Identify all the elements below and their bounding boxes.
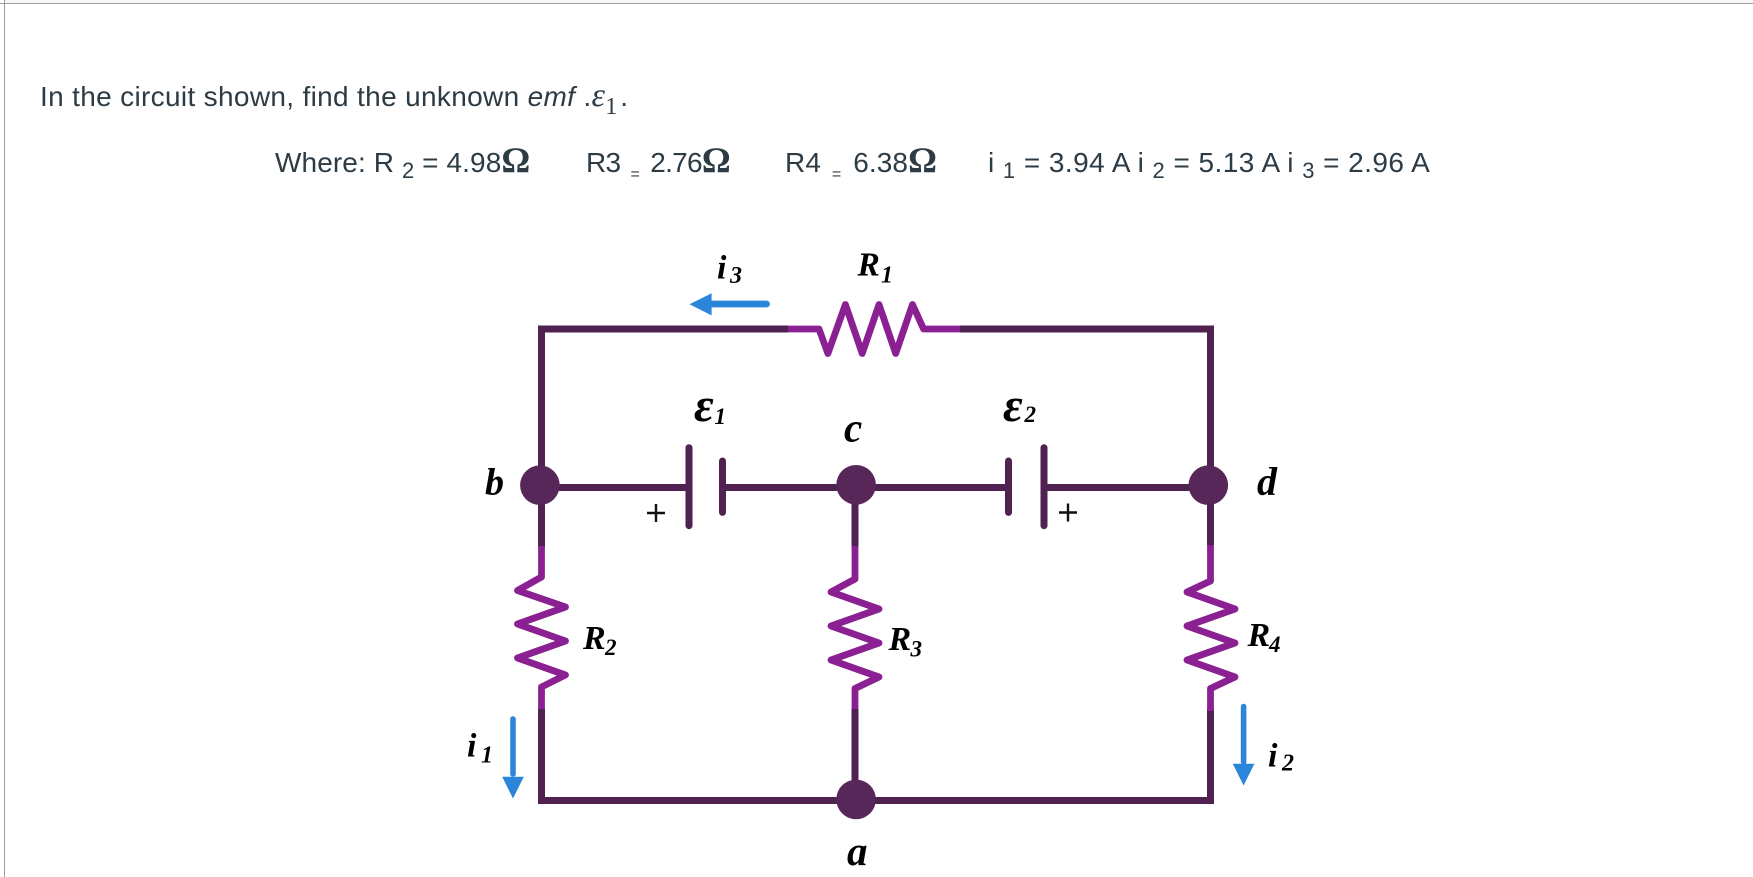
- plus sign of E1: [647, 504, 665, 522]
- svg-text:c: c: [844, 405, 862, 451]
- wire: middle vertical c to R3: [852, 488, 859, 548]
- svg-text:d: d: [1257, 459, 1278, 504]
- wire: left vertical upper (b to top-left corner): [538, 329, 545, 486]
- node d: [1189, 465, 1229, 505]
- wire: right vertical upper (d to top-right corner): [1207, 329, 1214, 545]
- where line: [275, 147, 530, 179]
- node c: [836, 465, 876, 505]
- wire: middle horizontal b to battery E1: [542, 484, 690, 491]
- svg-text:R: R: [888, 621, 912, 658]
- resistor R3: [831, 546, 879, 711]
- svg-text:1: 1: [481, 743, 493, 769]
- svg-text:3: 3: [729, 263, 742, 289]
- resistor R2: [518, 546, 566, 711]
- plus sign of E2: [1059, 504, 1077, 522]
- wire: top side right segment: [960, 329, 1211, 333]
- svg-text:i: i: [717, 250, 727, 287]
- wire: left vertical lower (R2 to bottom-left corner): [538, 709, 545, 801]
- svg-text:R: R: [582, 620, 606, 657]
- svg-text:i: i: [1268, 738, 1278, 775]
- battery E2 short plate: [1005, 461, 1012, 512]
- resistor R1: [788, 305, 960, 354]
- svg-text:3: 3: [910, 637, 923, 662]
- svg-text:a: a: [847, 828, 868, 874]
- svg-text:1: 1: [881, 262, 893, 288]
- wire: middle horizontal battery E2 to d: [1044, 484, 1211, 491]
- top light strip: [5, 0, 1753, 3]
- battery E2 tall plate: [1041, 448, 1048, 526]
- svg-text:R: R: [857, 246, 880, 283]
- top border line: [0, 3, 1753, 4]
- arrow i3 (current arrow pointing left): [690, 293, 767, 315]
- node b: [520, 465, 560, 505]
- resistor R4: [1187, 545, 1235, 711]
- circuit figure: [430, 230, 1330, 877]
- svg-text:R: R: [1247, 617, 1271, 654]
- svg-text:2: 2: [1024, 402, 1037, 427]
- svg-text:i: i: [467, 728, 477, 765]
- battery E1 short plate: [719, 461, 726, 512]
- svg-text:2: 2: [604, 635, 617, 660]
- wire: top side left segment: [542, 329, 789, 333]
- node a: [836, 780, 876, 820]
- svg-text:ε: ε: [694, 379, 714, 432]
- wire: middle horizontal node c to battery E2: [855, 484, 1009, 491]
- wire: middle horizontal battery E1 to node c: [723, 484, 856, 491]
- wire: right vertical lower (bottom-right corner to R4): [1207, 709, 1214, 801]
- svg-text:4: 4: [1268, 632, 1281, 657]
- question line: [40, 81, 628, 113]
- svg-text:ε: ε: [1003, 379, 1023, 432]
- wire: left vertical below b: [538, 486, 545, 547]
- wire: bottom side: [538, 797, 1214, 804]
- left border line: [4, 0, 5, 877]
- arrow i1 (current arrow pointing down): [502, 719, 524, 799]
- svg-text:2: 2: [1281, 751, 1294, 777]
- svg-text:b: b: [485, 462, 504, 504]
- svg-text:1: 1: [715, 404, 727, 429]
- battery E1 tall plate: [686, 448, 693, 526]
- arrow i2 (current arrow pointing down): [1233, 707, 1255, 786]
- wire: middle vertical R3 to node a: [852, 709, 859, 801]
